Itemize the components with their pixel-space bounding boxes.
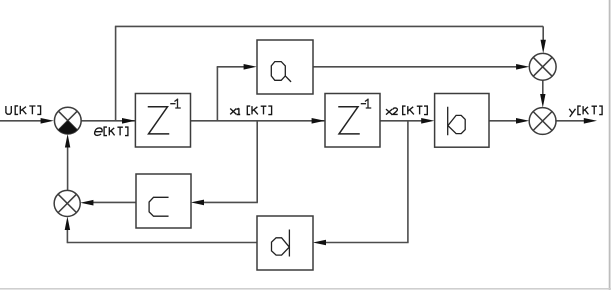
window border right — [609, 0, 611, 290]
wire b to M2 — [489, 120, 521, 122]
wire into block a — [217, 66, 248, 68]
block a — [257, 40, 313, 94]
arrowhead into S1 from below — [65, 134, 70, 148]
wire Z1 to Z2 — [191, 120, 326, 122]
wire top feedback vertical — [115, 26, 117, 120]
arrowhead into M1 from top — [541, 40, 546, 54]
glyph Z in Z1 with exponent -1 — [149, 107, 169, 134]
label e[kT] — [94, 127, 128, 136]
wire into block c right side — [200, 201, 258, 203]
arrowhead into S1 — [41, 118, 54, 124]
wire M2 to output — [555, 120, 588, 122]
wire S1 down to S2 — [67, 145, 69, 191]
summing junction S2 — [54, 190, 80, 216]
wire branch up to block a — [216, 67, 218, 121]
wire block a to M1 — [313, 66, 521, 68]
block Z2 — [325, 94, 380, 148]
arrowhead into block a — [244, 64, 257, 70]
glyph a — [271, 62, 290, 82]
label y[kT] — [569, 106, 602, 117]
multiplier M1 — [529, 53, 556, 80]
arrowhead into b — [421, 118, 434, 124]
glyph d — [272, 230, 290, 256]
wire d to S2 horizontal — [67, 242, 257, 244]
arrowhead into M1 from a — [516, 64, 529, 70]
wire Z2 to b — [380, 120, 426, 122]
wire S1 to Z1 — [81, 120, 135, 122]
arrowhead into S2 from below — [65, 216, 70, 230]
wire branch down to block c — [256, 121, 258, 203]
wire M1 to M2 — [542, 80, 544, 100]
glyph c — [149, 197, 168, 216]
label x1 [kT] — [230, 106, 271, 115]
arrowhead into c block — [191, 200, 204, 206]
arrowhead into M2 from b — [516, 118, 529, 124]
arrowhead into S2 from c — [80, 200, 93, 206]
wire top feedback drop into M1 — [542, 26, 544, 45]
glyph Z in Z2 with exponent -1 — [339, 107, 359, 134]
multiplier M2 — [529, 108, 556, 135]
wire d to S2 vertical — [66, 225, 68, 243]
arrowhead into M2 from M1 — [540, 94, 545, 108]
arrowhead into d block — [313, 240, 326, 246]
wire top feedback horizontal — [115, 25, 543, 27]
wire c to S2 — [89, 201, 136, 203]
window border bottom — [0, 288, 611, 290]
arrowhead output y — [584, 118, 597, 124]
wire input U — [0, 120, 43, 122]
wire branch down to block d — [407, 121, 409, 243]
label x2[kT] — [386, 106, 427, 115]
block Z1 — [135, 94, 190, 148]
arrowhead into Z2 — [312, 118, 325, 124]
S1 filled bottom quadrant — [58, 121, 77, 134]
glyph b — [448, 107, 466, 134]
arrowhead into Z1 — [122, 118, 135, 124]
label U[kT] — [6, 106, 41, 115]
block d — [257, 216, 313, 270]
block b — [435, 94, 489, 148]
block c — [136, 174, 191, 228]
summing junction S1 — [54, 107, 81, 134]
wire into block d right side — [322, 242, 409, 244]
